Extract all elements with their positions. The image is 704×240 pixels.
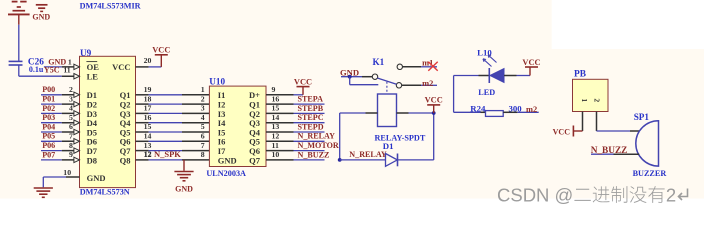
svg-text:9: 9 [272, 85, 276, 94]
svg-text:LED: LED [478, 88, 495, 97]
svg-text:GND: GND [218, 155, 237, 165]
svg-text:N_RELAY: N_RELAY [298, 132, 336, 141]
svg-text:STEPD: STEPD [298, 122, 324, 131]
svg-text:11: 11 [63, 65, 70, 74]
svg-text:14: 14 [272, 113, 280, 122]
svg-text:13: 13 [272, 122, 280, 131]
svg-text:0.1u: 0.1u [29, 65, 44, 74]
svg-text:P01: P01 [42, 95, 55, 104]
svg-text:12: 12 [272, 132, 280, 141]
svg-text:1: 1 [580, 98, 589, 102]
svg-text:P00: P00 [42, 85, 55, 94]
svg-text:P06: P06 [42, 141, 55, 150]
svg-text:Y5C: Y5C [44, 65, 60, 74]
svg-text:1: 1 [201, 85, 205, 94]
svg-text:m1: m1 [422, 58, 433, 67]
svg-text:7: 7 [69, 132, 73, 141]
svg-text:VCC: VCC [294, 77, 312, 86]
svg-text:SP1: SP1 [634, 112, 650, 122]
svg-text:GND: GND [32, 13, 50, 22]
svg-text:VCC: VCC [425, 96, 443, 105]
svg-text:11: 11 [272, 141, 279, 150]
svg-text:300: 300 [509, 104, 523, 114]
svg-text:6: 6 [69, 122, 73, 131]
svg-text:7: 7 [201, 141, 205, 150]
svg-text:9: 9 [69, 150, 73, 159]
svg-text:N_SPK: N_SPK [154, 149, 181, 159]
svg-text:P04: P04 [42, 122, 55, 131]
svg-text:8: 8 [69, 141, 73, 150]
svg-text:20: 20 [144, 56, 152, 65]
svg-text:14: 14 [144, 132, 152, 141]
svg-text:VCC: VCC [112, 62, 130, 72]
svg-text:GND: GND [175, 184, 193, 193]
svg-text:VCC: VCC [522, 58, 540, 67]
svg-text:18: 18 [144, 94, 152, 103]
svg-text:LE: LE [87, 72, 99, 82]
svg-text:PB: PB [574, 70, 586, 80]
svg-text:4: 4 [201, 113, 205, 122]
svg-text:P03: P03 [42, 113, 55, 122]
svg-text:N_BUZZ: N_BUZZ [591, 146, 628, 156]
svg-text:2: 2 [666, 185, 676, 206]
svg-text:m2: m2 [422, 79, 433, 88]
svg-text:R24: R24 [470, 104, 486, 114]
svg-text:STEPA: STEPA [298, 95, 324, 104]
svg-text:D8: D8 [87, 155, 97, 165]
svg-text:Q8: Q8 [120, 155, 131, 165]
svg-text:P05: P05 [42, 132, 55, 141]
svg-text:3: 3 [201, 104, 205, 113]
svg-text:U10: U10 [209, 76, 225, 86]
svg-text:16: 16 [272, 94, 280, 103]
svg-text:13: 13 [144, 141, 152, 150]
svg-text:P02: P02 [42, 104, 55, 113]
svg-text:2: 2 [592, 98, 601, 102]
svg-text:19: 19 [144, 85, 152, 94]
svg-text:STEPB: STEPB [298, 104, 324, 113]
svg-text:10: 10 [63, 168, 71, 177]
svg-text:CSDN @: CSDN @ [497, 185, 573, 206]
svg-text:STEPC: STEPC [298, 113, 324, 122]
svg-text:10: 10 [272, 150, 280, 159]
svg-text:4: 4 [69, 104, 73, 113]
svg-text:ULN2003A: ULN2003A [206, 169, 246, 178]
svg-text:17: 17 [144, 104, 152, 113]
svg-text:12: 12 [144, 150, 152, 159]
svg-text:BUZZER: BUZZER [633, 169, 667, 178]
svg-text:8: 8 [201, 150, 205, 159]
svg-text:15: 15 [144, 122, 152, 131]
svg-text:N_RELAY: N_RELAY [349, 150, 387, 159]
svg-text:DM74LS573N: DM74LS573N [80, 188, 130, 197]
svg-text:VCC: VCC [553, 127, 571, 136]
svg-text:N_MOTOR: N_MOTOR [298, 141, 339, 150]
svg-text:15: 15 [272, 104, 280, 113]
svg-text:5: 5 [201, 122, 205, 131]
svg-text:2: 2 [69, 85, 73, 94]
svg-text:K1: K1 [373, 57, 385, 67]
svg-text:N_BUZZ: N_BUZZ [298, 150, 330, 159]
svg-text:3: 3 [69, 94, 73, 103]
svg-text:DM74LS573MIR: DM74LS573MIR [80, 2, 141, 11]
svg-text:5: 5 [69, 113, 73, 122]
svg-text:6: 6 [201, 132, 205, 141]
svg-text:GND: GND [87, 173, 106, 183]
svg-text:2: 2 [201, 94, 205, 103]
svg-text:m2: m2 [526, 105, 537, 114]
svg-text:Q7: Q7 [249, 155, 261, 165]
svg-text:P07: P07 [42, 150, 55, 159]
svg-text:VCC: VCC [152, 46, 170, 55]
svg-text:16: 16 [144, 113, 152, 122]
svg-text:U9: U9 [80, 48, 92, 58]
